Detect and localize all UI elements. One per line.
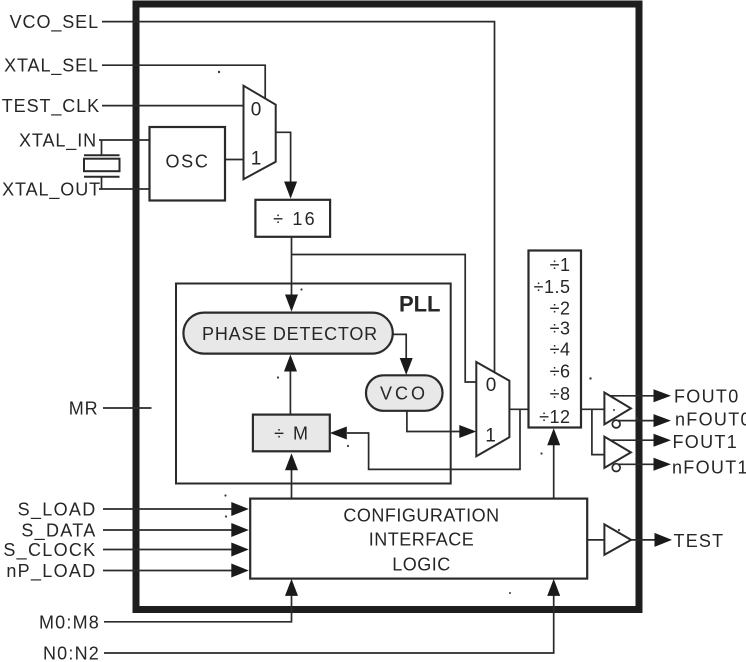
svg-text:XTAL_SEL: XTAL_SEL [4,56,99,77]
wire TEST [631,533,672,547]
mux U2 [476,362,509,456]
svg-text:S_DATA: S_DATA [21,521,96,542]
wire mux U1 output [276,132,297,198]
wire FOUT1 [611,434,672,447]
wire M0:M8 [104,579,298,622]
svg-text:INTERFACE: INTERFACE [369,530,475,550]
svg-text:CONFIGURATION: CONFIGURATION [343,506,499,526]
svg-text:LOGIC: LOGIC [392,554,451,574]
label M0:M8 [39,612,100,632]
svg-text:÷4: ÷4 [550,340,571,360]
label S_CLOCK [3,540,96,561]
buffer FOUT0 [604,393,631,428]
svg-text:XTAL_OUT: XTAL_OUT [2,180,101,201]
wire S_DATA [103,523,249,537]
mux U1 [244,86,276,180]
svg-text:÷ M: ÷ M [274,423,310,443]
label TEST [674,531,725,551]
wire mux U2 output to output divider [509,408,528,410]
label XTAL_OUT [2,180,101,201]
svg-text:TEST: TEST [674,531,725,551]
wire N select from configuration logic [547,428,560,498]
svg-text:÷12: ÷12 [539,407,570,427]
label nP_LOAD [6,561,96,582]
label nFOUT0 [675,409,746,429]
label TEST_CLK [2,96,100,117]
wire divider output to buffers [581,409,604,454]
PLL box [176,284,451,484]
svg-text:N0:N2: N0:N2 [43,644,100,662]
svg-text:S_LOAD: S_LOAD [18,500,97,521]
wire XTAL_OUT [99,177,150,189]
output divider N [529,251,582,428]
svg-text:M0:M8: M0:M8 [39,612,100,632]
svg-text:÷1.5: ÷1.5 [534,277,571,297]
label MR [69,399,99,419]
label VCO_SEL [10,12,99,33]
svg-text:VCO: VCO [380,384,428,404]
wire TEST_CLK [102,105,244,107]
buffer TEST [587,524,631,554]
svg-text:PHASE DETECTOR: PHASE DETECTOR [202,324,378,344]
oscillator OSC [150,127,226,201]
label XTAL_IN [19,131,97,152]
svg-text:TEST_CLK: TEST_CLK [2,96,100,117]
wire VCO_SEL [102,22,495,373]
svg-text:÷ 16: ÷ 16 [273,209,317,229]
svg-text:0: 0 [486,375,497,396]
svg-text:1: 1 [251,149,262,170]
svg-text:nFOUT1: nFOUT1 [672,457,746,477]
svg-text:0: 0 [251,100,262,121]
label S_DATA [21,521,96,542]
wire phase detector to VCO [393,334,413,375]
svg-text:FOUT1: FOUT1 [673,432,739,452]
wire nP_LOAD [103,564,249,578]
svg-text:÷6: ÷6 [550,362,571,382]
divider /M [253,415,330,452]
wire XTAL_SEL [102,65,265,98]
wire VCO output to mux U2 input 1 [407,411,476,438]
svg-text:PLL: PLL [399,292,441,317]
buffer FOUT1 [604,437,631,472]
label XTAL_SEL [4,56,99,77]
label FOUT0 [674,387,740,407]
wire OSC to mux [225,159,244,161]
wire S_CLOCK [103,543,249,557]
wire S_LOAD [103,502,249,516]
chip border [136,4,639,610]
wire /M output to phase detector [284,355,297,415]
svg-text:nFOUT0: nFOUT0 [675,409,746,429]
svg-text:nP_LOAD: nP_LOAD [6,561,96,582]
crystal Y1 [84,155,120,177]
svg-text:÷8: ÷8 [550,384,571,404]
divider /16 [255,200,330,237]
svg-text:÷1: ÷1 [550,255,571,275]
configuration interface logic [250,499,587,579]
svg-text:OSC: OSC [165,152,209,172]
oscillator VCO [366,375,443,411]
label S_LOAD [18,500,97,521]
label N0:N2 [43,644,100,662]
svg-text:VCO_SEL: VCO_SEL [10,12,99,33]
wire M select from configuration logic [285,453,298,498]
svg-text:÷3: ÷3 [550,319,571,339]
wire nFOUT1 [619,458,672,471]
label FOUT1 [673,432,739,452]
phase detector [183,313,392,354]
svg-text:S_CLOCK: S_CLOCK [3,540,96,561]
svg-text:1: 1 [485,426,496,447]
wire N0:N2 [104,579,560,653]
svg-text:÷2: ÷2 [550,299,571,319]
wire nFOUT0 [618,414,671,427]
wire /16 branch to mux U2 input 0 [292,255,477,383]
wire feedback mux U2 output to /M [330,409,520,469]
svg-text:XTAL_IN: XTAL_IN [19,131,97,152]
wire /16 output to phase detector [285,237,298,312]
wire FOUT0 [610,389,671,402]
speckle dots [218,71,638,594]
svg-text:MR: MR [69,399,99,419]
wire MR [103,407,152,409]
svg-text:FOUT0: FOUT0 [674,387,740,407]
wire XTAL_IN [99,140,150,155]
label nFOUT1 [672,457,746,477]
